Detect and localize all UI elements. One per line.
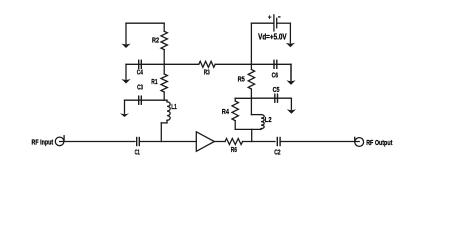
node L1/main junction [160,123,162,142]
svg-text:RF Input: RF Input [32,138,54,147]
capacitor C1 [135,137,140,157]
svg-text:L2: L2 [265,117,272,124]
ground (C3) [120,100,129,117]
resistor R1 [151,64,167,100]
svg-text:C4: C4 [137,70,143,77]
svg-text:R3: R3 [204,70,210,77]
capacitor C4 [137,60,143,77]
resistor R2 [152,23,167,64]
wire C5 line [251,97,291,99]
wire C3 line [125,99,168,101]
battery V1 Vd [251,14,290,31]
capacitor C5 [273,87,280,103]
ground (top left) [121,23,130,48]
svg-text:C1: C1 [135,149,140,156]
capacitor C2 [274,137,280,157]
ground (C5) [287,98,296,114]
ground (C6) [286,64,295,85]
svg-text:+: + [268,15,272,22]
svg-text:L1: L1 [171,104,177,111]
resistor R6 [214,139,275,155]
svg-text:Vd=+5.0V: Vd=+5.0V [258,32,287,41]
ground (C4) [121,64,130,83]
svg-text:C6: C6 [272,72,278,79]
svg-text:C2: C2 [274,150,280,157]
wire R4/L2 bottom rail [235,128,261,130]
node R4L2/main junction [251,129,253,141]
wire supply branch [250,23,252,64]
svg-text:C5: C5 [273,87,280,94]
RF Input port J1 [32,136,65,147]
svg-text:R2: R2 [152,37,159,44]
resistor R5 [238,64,255,98]
ground (battery) [286,23,295,47]
wire input to C1 [60,141,135,143]
wire C6 line [251,63,291,65]
svg-text:RF Output: RF Output [366,138,393,147]
wire top-left to ground [126,22,164,24]
svg-text:R1: R1 [151,79,157,86]
svg-text:R4: R4 [222,109,229,116]
op-amp U1 [196,132,214,152]
inductor L1 [161,100,177,123]
RF Output port J2 [355,137,393,147]
wire C4 line [126,63,164,65]
wire C1 to amplifier [140,141,197,143]
svg-text:R6: R6 [231,147,237,154]
capacitor C3 [137,85,143,105]
svg-text:C3: C3 [137,85,143,92]
wire C2 to output [280,141,359,143]
svg-text:R5: R5 [238,76,245,83]
resistor R3 [164,61,251,76]
inductor L2 [251,98,271,129]
capacitor C6 [272,60,278,80]
resistor R4 [222,98,252,129]
